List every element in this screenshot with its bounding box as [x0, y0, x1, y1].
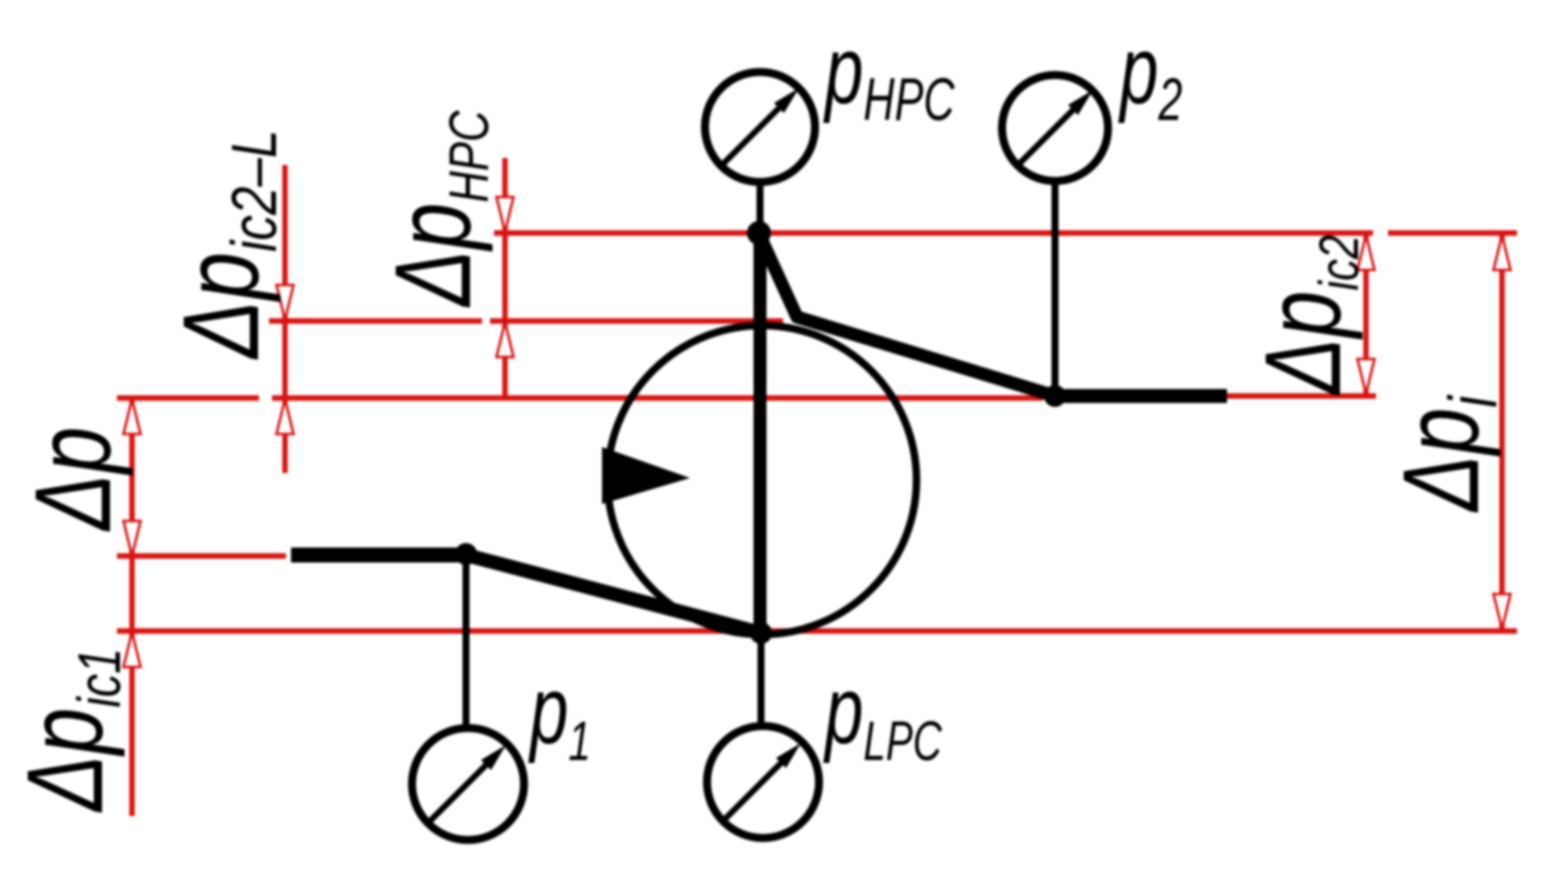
label Delta-p_ic1 (rotated) — [4, 648, 134, 813]
label p_LPC — [823, 656, 943, 773]
label p_HPC — [823, 16, 956, 134]
svg-text:pHPC: pHPC — [823, 16, 956, 134]
node A (top, p_HPC tap) — [747, 221, 771, 245]
svg-text:pLPC: pLPC — [823, 656, 943, 773]
label Delta-p_HPC (rotated) — [372, 110, 500, 308]
svg-text:ΔpHPC: ΔpHPC — [372, 110, 500, 308]
flow direction triangle — [602, 447, 690, 504]
node C (left, p_1 tap) — [455, 543, 477, 565]
svg-text:Δpi: Δpi — [1380, 395, 1511, 513]
dimension line V4 (Delta-p_ic2) — [1358, 233, 1375, 395]
dimension line V3 (Delta-p_HPC) — [497, 158, 514, 397]
wire: red reference line L3 (interstage level y=398) — [117, 396, 1376, 398]
node B (right, p_2 tap) — [1044, 385, 1066, 407]
gauge U4 p_LPC — [707, 633, 819, 838]
svg-text:Δpic2–L: Δpic2–L — [160, 130, 291, 360]
dimension line V2 (Delta-p_ic2-L) — [277, 165, 294, 473]
wire: suction pipe diagonal — [466, 555, 761, 633]
wire: discharge pipe right horizontal — [1055, 389, 1227, 403]
svg-text:Δpic2: Δpic2 — [1242, 235, 1370, 396]
svg-text:p1: p1 — [528, 656, 591, 773]
svg-text:Δp: Δp — [12, 427, 134, 532]
gauge U1 p_HPC — [705, 72, 815, 233]
label Delta-p (rotated) — [12, 427, 134, 532]
compressor circle — [608, 326, 917, 635]
wire: red reference line L4 (suction line level y=556) — [117, 553, 286, 558]
wire: red reference line L2 (intermediate level y=321) — [269, 318, 783, 323]
node D (bottom, p_LPC tap) — [750, 622, 772, 644]
wire: main vertical pipe through compressor — [754, 233, 767, 633]
gauge U3 p_1 — [412, 555, 524, 840]
wire: red reference line L5 (suction pressure level y=631) — [117, 628, 1517, 633]
gauge U2 p_2 — [1002, 75, 1108, 396]
label Delta-p_ic2 (rotated) — [1242, 235, 1370, 396]
svg-text:Δpic1: Δpic1 — [4, 648, 134, 813]
svg-text:p2: p2 — [1118, 16, 1183, 134]
label p_1 — [528, 656, 591, 773]
label Delta-p_ic2-L (rotated) — [160, 130, 291, 360]
wire: red reference line L1 (discharge pressure level y=232) — [494, 230, 1517, 235]
wire: discharge pipe polyline (steep then shallow diagonal) — [760, 236, 1055, 396]
wire: suction pipe left horizontal — [291, 548, 466, 563]
dimension line V5 (Delta-p_i) — [1494, 233, 1511, 630]
label p_2 — [1118, 16, 1183, 134]
label Delta-p_i (rotated) — [1380, 395, 1511, 513]
dimension line V1 (Delta-p and Delta-p_ic1) — [124, 398, 141, 816]
